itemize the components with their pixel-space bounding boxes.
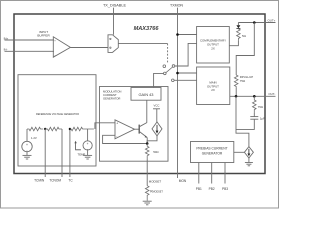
wire PB2 pin	[211, 163, 213, 184]
svg-text:+: +	[87, 142, 89, 146]
svg-text:PB1: PB1	[196, 187, 202, 191]
IC boundary box	[14, 14, 265, 174]
wire TX_DISABLE vertical	[113, 8, 115, 35]
main output block	[197, 67, 230, 105]
wire TXMON tap to complementary output	[178, 34, 197, 36]
gate disable mux G1	[108, 35, 118, 53]
current source diamond prebias	[244, 147, 253, 158]
svg-text:BUFFER: BUFFER	[37, 33, 50, 37]
resistor RPULLUP 75ohm	[234, 75, 238, 88]
svg-text:TXMON: TXMON	[170, 4, 183, 8]
current source diamond modulation	[152, 122, 162, 136]
wire prebias to diamond	[234, 151, 245, 153]
diode laser D1	[236, 25, 240, 28]
wire op-amp output to base	[135, 128, 139, 130]
wire TXMON long vertical net	[177, 8, 179, 178]
prebias current generator box	[191, 142, 234, 163]
wire MODSET pin	[146, 160, 148, 186]
op-amp input buffer U1	[53, 37, 70, 57]
svg-text:PB3: PB3	[222, 187, 228, 191]
modulation current generator box	[100, 87, 169, 162]
wire PB3 pin	[224, 163, 226, 184]
capacitor snubber	[250, 116, 258, 118]
wire switch to main output input	[174, 79, 197, 81]
ground below prebias diamond	[245, 158, 253, 166]
wire pullup to OUT-	[235, 88, 237, 96]
wire TXMON tap to main output	[178, 72, 197, 74]
node OUT- junction left	[235, 95, 238, 98]
wire dashed disable control	[167, 44, 169, 64]
resistor R1 chain	[27, 127, 43, 131]
wire OUT-	[230, 95, 276, 97]
wire gate output	[118, 43, 167, 45]
complementary output block	[197, 27, 230, 64]
resistor 50ohm internal	[145, 144, 149, 160]
resistor R2 chain	[45, 127, 62, 131]
svg-text:1μF: 1μF	[260, 117, 265, 121]
wire OUT- to prebias source	[236, 96, 249, 146]
arrow temperature control	[76, 143, 81, 150]
node OUT+ junction	[253, 21, 256, 24]
svg-text:-: -	[116, 134, 117, 138]
svg-text:+: +	[26, 143, 28, 147]
resistor R3 chain	[70, 127, 94, 131]
node junction dot	[176, 33, 179, 36]
svg-text:GAIN 43: GAIN 43	[139, 93, 154, 97]
wire TC pin	[69, 129, 71, 177]
wire OUT+ to pullup	[236, 23, 254, 76]
svg-text:TX_DISABLE: TX_DISABLE	[103, 3, 126, 7]
resistor RMODSET external	[145, 186, 149, 201]
ground below 1.2V	[23, 152, 32, 159]
voltage source 1.2V	[22, 141, 32, 151]
svg-text:REFERENCE VOLTAGE GENERATOR: REFERENCE VOLTAGE GENERATOR	[36, 112, 79, 116]
gain block	[131, 88, 161, 101]
svg-text:-: -	[55, 53, 56, 57]
svg-text:TCNOM: TCNOM	[49, 178, 61, 182]
svg-text:2X: 2X	[211, 88, 215, 92]
wire TCNOM pin	[61, 129, 63, 177]
node OUT- junction right	[253, 95, 256, 98]
node TCMIN junction	[44, 128, 46, 130]
svg-text:PREBIAS CURRENT: PREBIAS CURRENT	[196, 146, 227, 150]
svg-text:75Ω: 75Ω	[258, 105, 264, 109]
svg-text:TC: TC	[68, 178, 73, 182]
svg-text:VCC: VCC	[154, 104, 160, 108]
svg-text:50Ω: 50Ω	[153, 150, 159, 154]
svg-text:MODSET: MODSET	[149, 179, 162, 183]
wire switch to complementary output input	[175, 43, 197, 66]
resistor 5ohm laser series	[237, 29, 241, 40]
svg-text:2X: 2X	[211, 46, 215, 50]
svg-text:GENERATOR: GENERATOR	[202, 152, 223, 156]
wire complementary output to damping resistor	[229, 40, 238, 45]
transistor Q1	[138, 125, 140, 134]
wire TCMIN pin	[44, 129, 46, 177]
wire snubber to node	[236, 119, 254, 129]
node emitter junction	[146, 142, 149, 145]
ground below RMODSET	[143, 201, 152, 205]
svg-text:RMODSET: RMODSET	[150, 190, 163, 194]
svg-text:TCMIN: TCMIN	[34, 178, 45, 182]
svg-text:OUT+: OUT+	[268, 18, 276, 22]
svg-text:MON: MON	[179, 179, 187, 183]
svg-text:+: +	[116, 121, 118, 125]
svg-text:PB2: PB2	[209, 187, 215, 191]
switch S1 contacts	[163, 65, 175, 82]
wire IN+	[5, 39, 55, 41]
wire OUT+	[238, 22, 275, 24]
node TC junction	[69, 128, 71, 130]
wire switch common to gain box	[154, 73, 164, 87]
svg-text:75Ω: 75Ω	[240, 79, 246, 83]
svg-text:MAX3766: MAX3766	[134, 26, 160, 32]
reference voltage generator box	[18, 75, 96, 166]
ground below TEMP	[83, 151, 92, 160]
wire op-amp feedback	[103, 135, 148, 143]
wire diamond to emitter node	[147, 136, 157, 144]
figure frame	[1, 1, 279, 209]
op-amp U2	[115, 120, 135, 139]
wire emitter down	[146, 137, 148, 143]
wire chain to op-amp plus	[95, 123, 115, 129]
svg-text:1.2V: 1.2V	[31, 136, 37, 140]
wire PB1 pin	[198, 163, 200, 184]
svg-text:-: -	[87, 147, 88, 151]
node junction dot	[176, 72, 179, 75]
wire gain output to transistor collector	[146, 100, 148, 123]
wire IN-	[5, 50, 55, 52]
svg-text:GENERATOR: GENERATOR	[103, 97, 120, 101]
resistor 75ohm snubber	[253, 96, 257, 113]
wire buffer output	[70, 47, 108, 49]
voltage source TEMP	[83, 141, 92, 150]
svg-text:OUT-: OUT-	[268, 92, 275, 96]
